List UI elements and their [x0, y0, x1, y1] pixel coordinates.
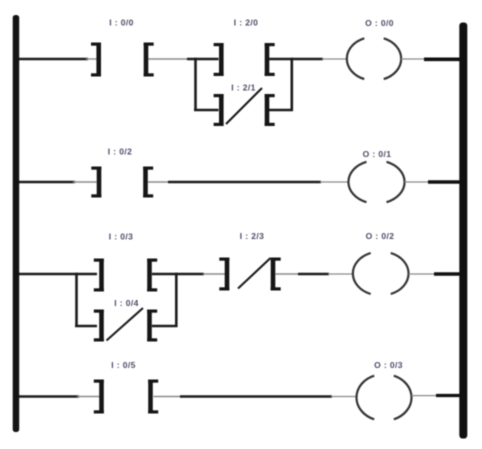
wire: bottom branch I:0/4 to rejoin [152, 325, 178, 328]
wire: left rail to I:0/0 [19, 58, 88, 61]
wire: left rail to I:0/2 [19, 181, 75, 184]
svg-text:I : 2/0: I : 2/0 [234, 18, 259, 28]
wire: thin lead into I:0/5 [77, 396, 100, 398]
wire: thin lead into I:2/3 [203, 273, 225, 275]
coil O:0/1 [348, 162, 404, 202]
coil O:0/3 [356, 376, 411, 420]
wire: thin lead out of coil O:0/0 [401, 58, 426, 60]
wire: thin lead out of I:0/5 [154, 396, 183, 398]
wire: I:0/0 to branch junction [149, 58, 191, 60]
contact I:2/1 [214, 94, 275, 126]
wire: thin lead into coil O:0/0 [322, 58, 347, 60]
contact I:0/3 [94, 259, 157, 292]
wire: I:0/5 to coil O:0/3 [180, 395, 332, 398]
coil O:0/0 [347, 38, 401, 79]
wire: thin lead into I:0/0 [86, 58, 97, 60]
svg-text:O : 0/2: O : 0/2 [366, 231, 395, 241]
wire: thin lead into I:0/2 [73, 181, 97, 183]
branch junction: left vertical drop [194, 58, 197, 110]
wire: coil O:0/1 to right rail [428, 180, 460, 183]
left power rail [13, 15, 20, 432]
branch junction: left vertical drop [75, 273, 78, 326]
wire: left rail to I:0/5 [19, 395, 79, 398]
wire: thin lead out of I:2/3 [275, 273, 299, 275]
svg-text:I : 0/4: I : 0/4 [114, 298, 139, 308]
contact I:0/5 [94, 380, 158, 414]
wire: coil O:0/2 to right rail [434, 272, 460, 275]
svg-text:I : 0/3: I : 0/3 [109, 232, 134, 242]
svg-text:I : 0/2: I : 0/2 [108, 147, 133, 157]
svg-text:O : 0/3: O : 0/3 [374, 360, 403, 370]
branch junction: right vertical rejoin [175, 273, 178, 327]
svg-text:O : 0/0: O : 0/0 [365, 18, 394, 28]
coil O:0/2 [353, 253, 409, 294]
wire: bottom branch left segment [75, 325, 97, 328]
branch junction: right vertical rejoin [290, 58, 293, 111]
contact I:2/3 [219, 258, 280, 291]
wire: thin lead out of I:0/2 [148, 181, 170, 183]
wire: thin lead into coil O:0/2 [328, 273, 353, 275]
svg-text:I : 0/0: I : 0/0 [109, 18, 134, 28]
wire: I:2/3 to coil O:0/2 [298, 273, 329, 276]
wire: junction to I:2/0 [187, 58, 219, 61]
wire: bottom branch left segment [194, 109, 219, 112]
wire: top branch I:0/3 to rejoin [152, 273, 204, 276]
contact I:0/2 [91, 167, 153, 198]
svg-text:O : 0/1: O : 0/1 [363, 149, 392, 159]
svg-text:I : 2/3: I : 2/3 [240, 231, 265, 241]
slash of NC contact I:2/3 [238, 258, 271, 289]
wire: thin lead out of coil O:0/1 [405, 181, 431, 183]
wire: thin lead out of coil O:0/3 [411, 395, 438, 397]
wire: thin lead out of coil O:0/2 [409, 273, 436, 275]
svg-text:I : 0/5: I : 0/5 [111, 360, 136, 370]
wire: left rail to I:0/3 [19, 273, 97, 276]
right power rail [459, 23, 467, 439]
svg-text:I : 2/1: I : 2/1 [231, 83, 256, 93]
wire: coil O:0/0 to right rail [424, 57, 460, 61]
contact I:2/0 [214, 43, 275, 76]
wire: I:0/2 to coil O:0/1 [168, 181, 321, 184]
wire: thin lead into coil O:0/1 [320, 181, 349, 183]
wire: thin lead into coil O:0/3 [331, 396, 357, 398]
slash of NC contact I:0/4 [107, 308, 144, 341]
wire: bottom branch I:2/1 to rejoin [269, 109, 293, 112]
contact I:0/4 [94, 310, 157, 342]
wire: coil O:0/3 to right rail [436, 394, 460, 397]
slash of NC contact I:2/1 [226, 88, 262, 124]
wire: top branch I:2/0 to rejoin [269, 58, 323, 61]
contact I:0/0 [91, 43, 154, 77]
